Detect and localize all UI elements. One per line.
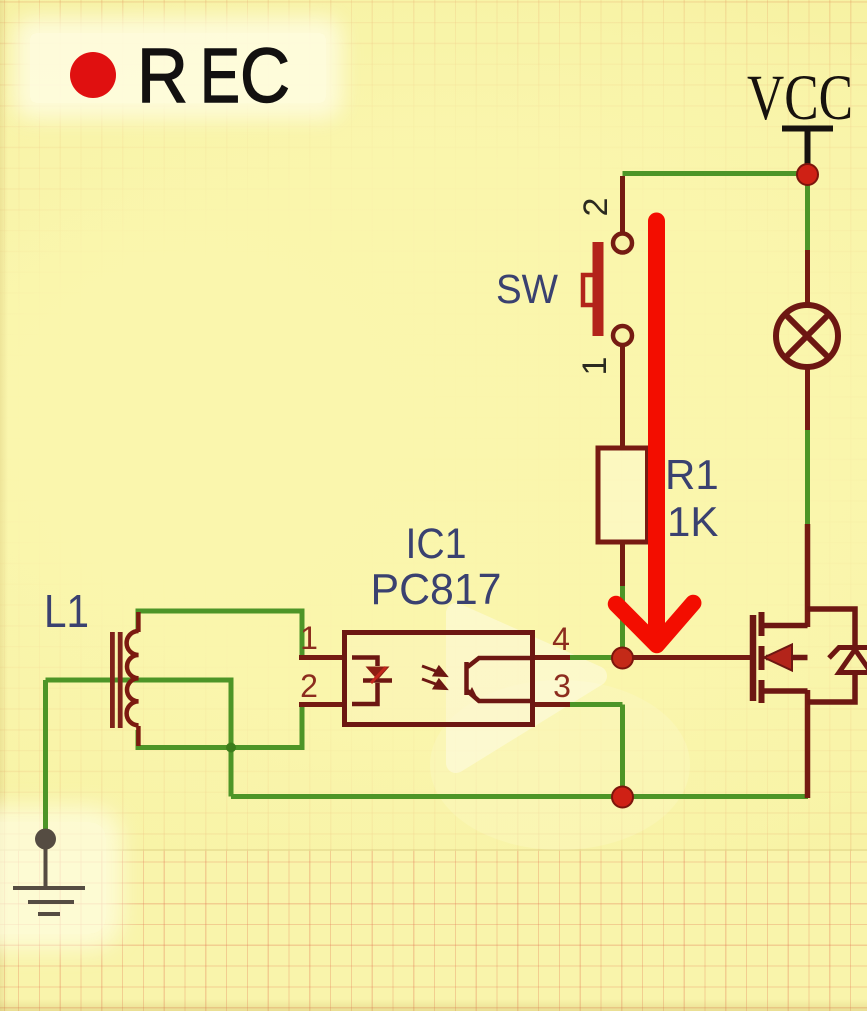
svg-text:PC817: PC817: [371, 565, 502, 614]
junction green: [226, 743, 236, 753]
svg-text:1K: 1K: [667, 498, 718, 545]
wire L1 bottom to pin2: [138, 705, 302, 748]
svg-text:L1: L1: [44, 585, 89, 637]
wire source down: [805, 690, 811, 798]
wire VCC to lamp: [805, 174, 810, 253]
wire pin3: [568, 702, 623, 707]
svg-text:E: E: [200, 33, 240, 119]
wire diode bottom branch: [808, 672, 856, 702]
watermark play triangle: [456, 613, 597, 763]
wire lamp to drain: [805, 428, 810, 526]
ground light panel: [0, 822, 106, 934]
wire bottom rail: [231, 794, 808, 799]
pin IC1-2: [299, 702, 347, 707]
svg-text:2: 2: [300, 668, 318, 704]
IC1 LED red tick: [371, 667, 386, 683]
transformer L1 core: [110, 632, 123, 728]
transformer L1 winding: [127, 631, 139, 725]
IC1 LED: [352, 658, 392, 705]
svg-text:SW: SW: [496, 266, 558, 312]
soft glare blob: [430, 680, 690, 850]
svg-text:C: C: [240, 33, 290, 119]
wire drain: [805, 524, 811, 627]
lamp: [776, 305, 838, 367]
pin IC1-1: [299, 655, 347, 660]
ground symbol: [13, 849, 85, 914]
wire ground drop: [43, 680, 48, 830]
pin R1 bottom: [620, 541, 625, 586]
switch SW pin2 circle: [613, 234, 632, 253]
wire diode top branch: [808, 609, 856, 648]
MOSFET Q1: [753, 612, 808, 703]
optocoupler IC1 box: [345, 633, 533, 725]
pin SW1 to R1: [620, 345, 625, 450]
power flag VCC: [747, 62, 853, 167]
svg-text:IC1: IC1: [406, 520, 467, 568]
svg-text:4: 4: [552, 621, 570, 657]
annotation red arrow: [616, 221, 693, 645]
pin IC1-3: [530, 702, 570, 707]
pin lamp top: [805, 250, 810, 306]
wire mid tap: [46, 680, 232, 797]
pin lamp bottom: [805, 367, 810, 430]
IC1 phototransistor: [467, 658, 532, 701]
node A dot at VCC: [797, 164, 818, 185]
svg-text:1: 1: [300, 620, 318, 656]
svg-text:R: R: [137, 33, 188, 119]
switch SW actuator: [583, 242, 604, 336]
wire R1 to node A: [620, 584, 625, 658]
REC light panel: [30, 33, 326, 103]
transformer L1 pin bottom: [136, 726, 141, 746]
svg-text:VCC: VCC: [747, 62, 853, 134]
wire L1 top: [138, 611, 302, 658]
pin SW2: [620, 176, 625, 234]
svg-text:R1: R1: [665, 451, 719, 498]
bottom crisp grid strip: [0, 851, 867, 1011]
wire pin3 down: [620, 705, 625, 798]
resistor R1: [598, 448, 648, 542]
node B dot at gate row: [612, 648, 633, 669]
IC1 emitter arrow: [468, 687, 479, 701]
svg-text:3: 3: [553, 668, 571, 704]
switch SW pin1 circle: [613, 326, 632, 345]
body diode zener: [829, 638, 867, 673]
IC1 light arrows: [422, 666, 446, 689]
MOSFET arrow: [764, 645, 792, 671]
pin IC1-4: [530, 655, 570, 660]
node C dot at bottom rail: [612, 787, 633, 808]
REC indicator dot: [70, 52, 116, 98]
seam above bottom strip: [0, 849, 867, 852]
svg-text:2: 2: [577, 198, 615, 217]
wire VCC net horizontal: [623, 171, 808, 176]
svg-text:1: 1: [576, 357, 614, 376]
ground dot: [35, 829, 56, 850]
transformer L1 pin top: [136, 612, 141, 632]
wire pin4 to node A: [568, 655, 616, 660]
wire gate: [628, 655, 751, 660]
